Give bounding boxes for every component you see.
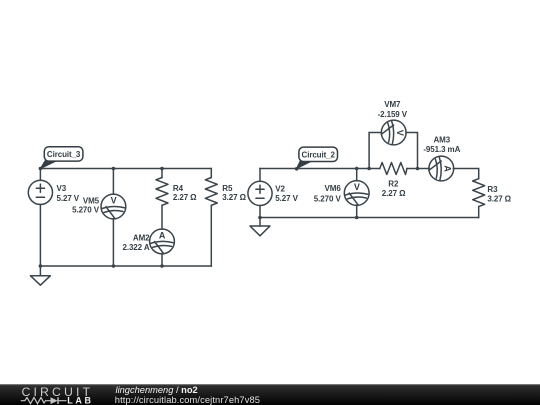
svg-text:Circuit_3: Circuit_3 [47,150,81,159]
svg-text:R4: R4 [173,184,184,193]
voltmeter VM6 [344,181,369,206]
wire VM5 top lead [112,169,114,195]
junction node VM6 bottom [355,216,359,220]
resistor R2 (horizontal) [380,163,407,175]
svg-text:Circuit_2: Circuit_2 [302,151,336,160]
voltage source V2 [248,181,272,205]
wire AM2 bottom lead [161,254,163,266]
svg-text:A: A [159,230,166,240]
junction node VM6 top [355,167,359,171]
callout Circuit_3 [40,147,82,169]
svg-text:AM3: AM3 [434,136,451,145]
junction node VM5 top [112,167,116,171]
voltage source V3 [28,180,52,204]
svg-text:http://circuitlab.com/cejtnr7e: http://circuitlab.com/cejtnr7eh7v85 [115,395,260,405]
wire bottom rail left circuit [40,265,211,267]
voltmeter VM7 (horizontal) [381,120,406,145]
ammeter AM3 (horizontal) [429,156,454,181]
ground left circuit [30,276,50,286]
junction node V3 top [39,167,43,171]
svg-text:3.27 Ω: 3.27 Ω [487,194,511,203]
svg-text:5.27 V: 5.27 V [57,194,80,203]
svg-text:2.27 Ω: 2.27 Ω [173,193,197,202]
svg-text:3.27 Ω: 3.27 Ω [222,193,246,202]
svg-text:VM5: VM5 [83,197,100,206]
wire R4 top lead [161,169,163,178]
wire V2 top lead [259,169,261,182]
svg-text:2.322 A: 2.322 A [122,243,149,252]
junction node VM7 left [367,167,371,171]
junction node VM5 bottom [112,264,116,268]
svg-text:R3: R3 [487,185,498,194]
footer bar [0,384,540,405]
wire AM3 to R3 corner [453,169,478,179]
ammeter AM2 [150,229,175,254]
svg-text:2.27 Ω: 2.27 Ω [382,189,406,198]
callout Circuit_2 [295,147,338,171]
wire VM5 bottom lead [112,219,114,266]
svg-text:V2: V2 [275,185,285,194]
wire VM6 top lead [356,169,358,181]
resistor R4 [156,178,168,206]
wire R2 to AM3 [407,168,429,170]
wire ground stub left [39,266,41,276]
wire top rail right circuit [260,168,380,170]
svg-text:-951.3 mA: -951.3 mA [423,145,460,154]
ground right circuit [250,226,270,236]
svg-text:V3: V3 [57,184,67,193]
wire R5 bottom lead [210,205,212,266]
svg-text:5.270 V: 5.270 V [72,206,100,215]
wire top rail left circuit [40,168,211,170]
resistor R5 [205,178,217,206]
svg-text:5.27 V: 5.27 V [275,194,298,203]
wire V3 bottom lead [39,205,41,267]
CircuitLab logo [21,385,94,405]
svg-text:R2: R2 [388,180,399,189]
wire V3 top lead [39,169,41,181]
svg-text:V: V [111,195,117,205]
svg-text:VM6: VM6 [325,184,342,193]
junction node VM7 right [416,167,420,171]
wire VM7 left leg [369,133,381,169]
svg-text:LAB: LAB [67,395,93,405]
junction node V3 bottom [39,264,43,268]
svg-text:5.270 V: 5.270 V [314,194,342,203]
junction node R4 top [160,167,164,171]
wire VM7 right leg [406,133,418,169]
svg-text:AM2: AM2 [133,234,150,243]
svg-text:VM7: VM7 [384,100,401,109]
junction node AM2 bottom [160,264,164,268]
svg-text:V: V [395,130,405,136]
wire bottom rail right circuit [260,217,479,219]
wire ground stub right [259,218,261,227]
wire R4-AM2 lead [161,205,163,229]
svg-text:R5: R5 [222,184,233,193]
svg-text:A: A [442,165,452,172]
wire VM6 bottom lead [356,205,358,217]
svg-text:-2.159 V: -2.159 V [378,110,408,119]
svg-text:V: V [354,182,360,192]
wire V2 bottom lead [259,206,261,218]
wire R3 bottom lead [478,207,480,218]
voltmeter VM5 [101,194,126,219]
wire R5 top lead [210,169,212,178]
resistor R3 [473,179,485,207]
svg-text:lingchenmeng / no2: lingchenmeng / no2 [116,385,198,395]
junction node ground right [258,216,262,220]
